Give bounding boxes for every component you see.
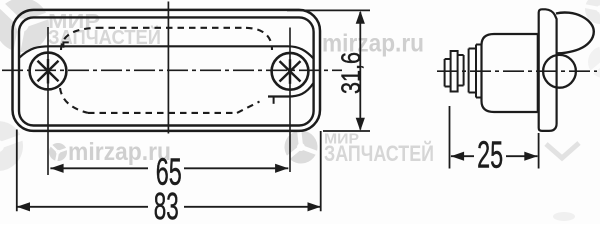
svg-text:ЗАПЧАСТЕЙ: ЗАПЧАСТЕЙ xyxy=(324,141,434,166)
svg-text:31,6: 31,6 xyxy=(336,52,366,94)
svg-text:83: 83 xyxy=(154,186,179,224)
svg-text:25: 25 xyxy=(477,135,503,177)
